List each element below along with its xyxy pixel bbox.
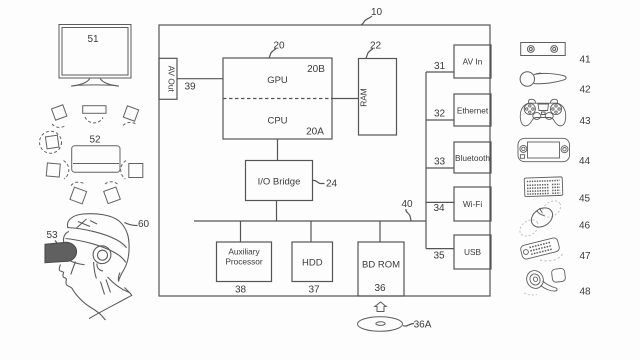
svg-text:20: 20 <box>273 41 285 52</box>
svg-text:37: 37 <box>308 285 320 296</box>
svg-text:USB: USB <box>464 247 482 257</box>
svg-text:41: 41 <box>579 55 591 66</box>
svg-text:43: 43 <box>579 116 591 127</box>
svg-text:42: 42 <box>579 85 591 96</box>
svg-text:32: 32 <box>434 109 446 120</box>
svg-text:36: 36 <box>374 283 386 294</box>
svg-text:46: 46 <box>579 221 591 232</box>
svg-text:60: 60 <box>138 219 150 230</box>
svg-text:Wi-Fi: Wi-Fi <box>463 199 483 209</box>
svg-text:RAM: RAM <box>359 88 369 107</box>
svg-text:52: 52 <box>89 135 101 146</box>
svg-text:20B: 20B <box>307 64 325 75</box>
svg-text:AV In: AV In <box>463 57 483 67</box>
svg-text:Ethernet: Ethernet <box>457 105 489 115</box>
svg-text:10: 10 <box>371 7 383 18</box>
svg-text:22: 22 <box>370 41 382 52</box>
svg-text:31: 31 <box>434 61 446 72</box>
svg-text:39: 39 <box>184 82 196 93</box>
svg-text:45: 45 <box>579 194 591 205</box>
svg-text:33: 33 <box>434 157 446 168</box>
svg-text:38: 38 <box>235 285 247 296</box>
svg-text:44: 44 <box>579 156 591 167</box>
svg-text:34: 34 <box>433 203 445 214</box>
svg-text:35: 35 <box>433 251 445 262</box>
svg-text:AV Out: AV Out <box>167 66 177 93</box>
svg-text:20A: 20A <box>306 127 324 138</box>
svg-text:36A: 36A <box>414 320 432 331</box>
svg-text:HDD: HDD <box>302 257 323 268</box>
svg-text:I/O Bridge: I/O Bridge <box>258 177 301 188</box>
svg-text:Auxiliary: Auxiliary <box>228 247 260 257</box>
svg-text:Processor: Processor <box>225 257 263 267</box>
svg-text:Bluetooth: Bluetooth <box>455 153 490 163</box>
svg-text:BD ROM: BD ROM <box>362 259 400 270</box>
svg-text:53: 53 <box>46 230 58 241</box>
svg-text:48: 48 <box>579 287 591 298</box>
svg-text:51: 51 <box>87 34 99 45</box>
svg-text:40: 40 <box>401 199 413 210</box>
svg-text:24: 24 <box>326 179 338 190</box>
svg-text:CPU: CPU <box>267 116 287 127</box>
svg-text:47: 47 <box>579 251 591 262</box>
svg-text:GPU: GPU <box>267 75 288 86</box>
